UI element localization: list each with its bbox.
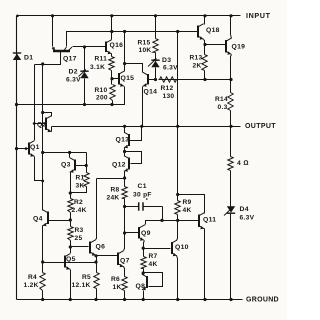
wire Q2 emitter to output rail bbox=[51, 127, 53, 132]
svg-text:Q8: Q8 bbox=[136, 283, 146, 290]
wire Q1 base to left rail bbox=[17, 148, 29, 150]
svg-text:Q11: Q11 bbox=[203, 217, 216, 224]
wire Q11 emitter to ground bbox=[204, 229, 206, 300]
svg-text:R2: R2 bbox=[74, 199, 83, 206]
junction bias line / Q15 collector bbox=[123, 30, 126, 33]
svg-text:Q3: Q3 bbox=[61, 161, 71, 168]
transistor Q19 bbox=[226, 38, 231, 55]
transistor Q6 bbox=[90, 240, 96, 256]
junction input rail x=112 bbox=[110, 14, 113, 17]
wire Q14 collector to Q15 collector bbox=[125, 64, 143, 73]
wire Q6 collector feedback up bbox=[96, 179, 97, 240]
svg-text:R8: R8 bbox=[111, 186, 120, 193]
svg-text:D3: D3 bbox=[162, 57, 171, 64]
resistor R4 1.2K bbox=[40, 273, 45, 291]
svg-text:Q2: Q2 bbox=[37, 122, 47, 129]
wire R1 bottom jog bbox=[71, 187, 87, 193]
svg-text:Q19: Q19 bbox=[232, 44, 246, 51]
wire R10 bottom bbox=[112, 101, 114, 105]
junction bias vertical / Q3 line bbox=[41, 151, 44, 154]
wire Q5 collector bbox=[70, 247, 72, 254]
resistor R9 4K bbox=[175, 201, 180, 215]
junction Q9 emitter / R7 / Q10 base bbox=[142, 247, 145, 250]
wire long vertical upper bbox=[177, 32, 179, 127]
transistor Q3 bbox=[70, 158, 75, 173]
junction Q10 collector / R9 / base line bbox=[176, 219, 179, 222]
wire to R5 bbox=[96, 263, 98, 273]
junction bias line / Q16 collector bbox=[110, 30, 113, 33]
wire output to 4-ohm resistor bbox=[230, 127, 232, 157]
svg-text:Q14: Q14 bbox=[144, 89, 158, 96]
resistor R13 2K bbox=[202, 55, 207, 71]
svg-text:R4: R4 bbox=[28, 274, 37, 281]
transistor Q11 bbox=[199, 213, 204, 230]
svg-text:Q16: Q16 bbox=[110, 42, 124, 49]
svg-text:D1: D1 bbox=[24, 55, 33, 62]
junction R9 top / Q11 collector line bbox=[176, 193, 179, 196]
wire Q12 base-collector loop bbox=[125, 152, 142, 164]
wire Q18 emitter bbox=[204, 40, 205, 45]
wire Q3 collector bbox=[69, 153, 71, 158]
wire output rail bbox=[52, 126, 241, 128]
wire to R8 bbox=[124, 179, 126, 187]
junction input rail / Q18 collector bbox=[203, 14, 206, 17]
junction Q6 emitter / Q7 base line bbox=[94, 254, 97, 257]
wire R6 to ground bbox=[124, 291, 126, 300]
transistor Q15 bbox=[119, 71, 124, 87]
junction R8 / Q7 collector / Q9 base bbox=[123, 231, 126, 234]
transistor Q16 bbox=[106, 40, 112, 55]
svg-text:Q9: Q9 bbox=[141, 230, 151, 237]
junction left rail / return line bbox=[15, 103, 18, 106]
svg-text:R3: R3 bbox=[75, 227, 84, 234]
junction R1 / R2 / Q3 emitter bbox=[69, 191, 72, 194]
wire ground rail (bottom) bbox=[17, 299, 243, 301]
zener arrow D4 bbox=[224, 208, 233, 216]
resistor R10 200 bbox=[110, 85, 115, 101]
wire Q9 base bbox=[125, 232, 139, 234]
svg-text:12.1K: 12.1K bbox=[72, 282, 91, 289]
junction input rail / Q17 emitter bbox=[51, 14, 54, 17]
svg-text:Q13: Q13 bbox=[116, 137, 130, 144]
wire R15 to D3 bbox=[155, 53, 157, 61]
transistor Q17 bbox=[52, 47, 72, 51]
svg-text:D2: D2 bbox=[69, 69, 78, 76]
wire Q11 collector line bbox=[178, 195, 205, 214]
svg-text:R13: R13 bbox=[190, 54, 203, 61]
svg-text:Q10: Q10 bbox=[175, 244, 189, 251]
wire R15 to input rail bbox=[155, 16, 157, 39]
svg-text:Q17: Q17 bbox=[63, 56, 77, 63]
svg-text:GROUND: GROUND bbox=[246, 297, 279, 304]
svg-text:6.3V: 6.3V bbox=[240, 215, 255, 222]
svg-text:Q12: Q12 bbox=[112, 162, 126, 169]
resistor R15 10K bbox=[153, 39, 158, 53]
transistor Q5 bbox=[65, 254, 70, 270]
wire Q7 emitter to R6 bbox=[124, 267, 125, 277]
wire Q15 base bbox=[113, 78, 119, 80]
junction output rail / Q13 base / Q14 emitter bbox=[140, 125, 143, 128]
resistor R3 25 bbox=[68, 227, 73, 241]
junction output rail / Q13 collector bbox=[123, 125, 126, 128]
svg-text:30 pF: 30 pF bbox=[133, 191, 152, 198]
transistor Q14 bbox=[143, 72, 148, 87]
junction input rail / R15 bbox=[154, 14, 157, 17]
junction OUTPUT node bbox=[229, 125, 232, 128]
wire bias vertical lower bbox=[42, 153, 44, 181]
wire D2 cathode down bbox=[84, 79, 86, 105]
resistor R14 0.3 bbox=[228, 93, 233, 111]
wire Q17 collector1 to Q18 base (bias line) bbox=[67, 32, 199, 47]
svg-text:0.3: 0.3 bbox=[218, 104, 228, 111]
wire Q8 base-collector loop bbox=[144, 273, 163, 287]
wire Q16 emitter to R11 bbox=[111, 54, 113, 57]
junction ground rail / Q5 emitter bbox=[69, 298, 72, 301]
wire to R4 bbox=[42, 263, 44, 273]
wire Q1 emitter jog bbox=[35, 157, 43, 181]
corner dot top-left bbox=[16, 15, 19, 18]
wire left rail bbox=[16, 16, 18, 300]
svg-text:Q1: Q1 bbox=[30, 144, 40, 151]
wire Q13 base to output rail bbox=[130, 127, 142, 141]
zener D3 6.3V bbox=[151, 60, 159, 67]
svg-text:2.4K: 2.4K bbox=[72, 207, 87, 214]
wire Q4 emitter down bbox=[42, 226, 44, 263]
svg-text:Q4: Q4 bbox=[33, 215, 43, 222]
transistor Q1 bbox=[29, 141, 34, 157]
zener arrow D2 bbox=[79, 70, 87, 77]
resistor R11 3.1K bbox=[109, 57, 114, 71]
wire Q9 emitter down bbox=[144, 241, 145, 249]
svg-text:Q15: Q15 bbox=[121, 75, 135, 82]
junction ground rail / Q8 bbox=[142, 298, 145, 301]
svg-text:R1: R1 bbox=[76, 174, 85, 181]
wire Q7 base line bbox=[97, 255, 118, 257]
junction Q1 emitter / bias vertical bbox=[41, 180, 44, 183]
wire Q15 emitter to left rail (R10 return) bbox=[17, 87, 125, 105]
wire Q16 collector to input rail bbox=[111, 16, 113, 40]
junction ground rail / Q11 bbox=[203, 298, 206, 301]
svg-text:R9: R9 bbox=[183, 199, 192, 206]
svg-text:4K: 4K bbox=[149, 261, 158, 268]
wire Q3 collector line bbox=[43, 152, 87, 154]
junction ground rail / right leg bbox=[229, 298, 232, 301]
junction Q3 base / R1 chain bbox=[85, 164, 88, 167]
junction Q13 emitter / Q12 collector / Q12 base loop bbox=[123, 150, 126, 153]
svg-text:INPUT: INPUT bbox=[246, 11, 271, 20]
wire D3 to R12 line bbox=[155, 68, 157, 80]
wire R11 to R10 bbox=[111, 71, 113, 85]
svg-text:3.1K: 3.1K bbox=[90, 64, 105, 71]
diode D1 bbox=[13, 53, 21, 60]
transistor Q12 bbox=[124, 156, 129, 172]
junction feedback / Q12 emitter / R8 bbox=[123, 176, 126, 179]
svg-text:130: 130 bbox=[163, 93, 175, 100]
svg-text:10K: 10K bbox=[139, 47, 152, 54]
resistor 4 ohm bbox=[228, 157, 233, 171]
junction D3 / Q14 base / R12 bbox=[154, 78, 157, 81]
svg-text:4K: 4K bbox=[183, 207, 192, 214]
wire Q3 base to R1 node bbox=[76, 165, 87, 167]
wire Q9 collector / Q11 base line bbox=[145, 221, 199, 226]
svg-text:R12: R12 bbox=[161, 85, 174, 92]
junction R11/R10/Q15 base bbox=[110, 77, 113, 80]
junction bias line / long vertical bbox=[176, 30, 179, 33]
resistor R7 4K bbox=[141, 257, 146, 269]
junction C1 / Q11 base line bbox=[160, 219, 163, 222]
junction R10 / return line bbox=[110, 103, 113, 106]
svg-text:6.3V: 6.3V bbox=[66, 76, 81, 83]
svg-text:D4: D4 bbox=[240, 206, 249, 213]
wire Q5 emitter to ground bbox=[70, 270, 72, 300]
wire R7 bottom bbox=[143, 269, 145, 273]
wire R4 to ground bbox=[42, 291, 44, 300]
svg-text:1.2K: 1.2K bbox=[24, 282, 39, 289]
transistor Q10 bbox=[172, 240, 177, 256]
junction R3 / Q5 collector / Q6 base line bbox=[69, 245, 72, 248]
svg-text:R10: R10 bbox=[95, 87, 108, 94]
wire Q14 emitter to output rail bbox=[142, 87, 144, 127]
wire R5 to ground bbox=[96, 289, 98, 300]
wire 4-ohm to D4 bbox=[230, 171, 232, 207]
junction Q3 collector bbox=[68, 151, 71, 154]
wire Q2 base to Q1 collector line bbox=[35, 123, 46, 125]
wire bias vertical upper bbox=[42, 65, 44, 113]
junction input rail / right rail bbox=[229, 14, 232, 17]
junction ground rail / R6 bbox=[123, 298, 126, 301]
zener D4 6.3V bbox=[227, 206, 235, 213]
resistor R5 12.1K bbox=[94, 273, 99, 289]
junction bias vertical / Q2 collector line bbox=[41, 111, 44, 114]
wire bias vertical mid bbox=[42, 113, 44, 153]
wire R12 line to right rail bbox=[159, 79, 231, 81]
wire R2 to R3 bbox=[70, 213, 72, 227]
wire to R13 bbox=[204, 45, 206, 55]
wire Q1 collector vertical bbox=[34, 65, 36, 141]
wire Q7 collector up bbox=[124, 233, 125, 251]
junction Q4 base / divider bbox=[69, 218, 72, 221]
svg-text:Q18: Q18 bbox=[206, 27, 220, 34]
wire Q6 base line bbox=[71, 246, 89, 248]
junction Q4 emitter / R4 / Q5 base line bbox=[41, 260, 44, 263]
junction left rail / Q1 base bbox=[15, 147, 18, 150]
wire R9 bottom bbox=[177, 215, 179, 221]
svg-text:R7: R7 bbox=[149, 253, 158, 260]
wire to R7 bbox=[143, 249, 145, 257]
wire to R9 bbox=[177, 195, 179, 201]
svg-text:6.3V: 6.3V bbox=[163, 64, 178, 71]
junction Q16 base / D2 / Q17 collector2 bbox=[83, 45, 86, 48]
wire R3 bottom bbox=[70, 241, 72, 247]
junction R13 bottom / R12 line bbox=[203, 78, 206, 81]
svg-text:Q6: Q6 bbox=[96, 244, 106, 251]
wire Q15 collector up to bias line bbox=[124, 32, 126, 72]
junction R12 line / right rail bbox=[229, 78, 232, 81]
transistor Q18 bbox=[198, 24, 204, 40]
transistor Q2 bbox=[46, 116, 52, 133]
wire Q10 collector up bbox=[177, 221, 178, 241]
junction ground rail / R4 bbox=[41, 298, 44, 301]
zener D2 6.3V bbox=[80, 71, 88, 78]
svg-text:R5: R5 bbox=[82, 274, 91, 281]
wire D4 to ground rail bbox=[230, 214, 232, 300]
junction R5 / base lines bbox=[94, 260, 97, 263]
junction Q18 emitter / Q19 base / R13 bbox=[203, 43, 206, 46]
wire Q19 collector to input rail bbox=[231, 16, 232, 39]
wire Q5 base line bbox=[43, 262, 65, 264]
wire Q19 emitter down to R14 bbox=[231, 55, 232, 93]
wire Q10 base line bbox=[144, 248, 171, 250]
wire Q6 emitter down bbox=[96, 256, 97, 263]
resistor R6 1K bbox=[122, 277, 127, 291]
junction output rail / long vertical bbox=[176, 125, 179, 128]
wire Q18 collector to input rail bbox=[204, 16, 206, 25]
wire C1 right lead down bbox=[162, 207, 164, 221]
wire jog Q1 collector to Q17 base node bbox=[35, 64, 43, 66]
wire Q12 emitter down bbox=[124, 172, 126, 179]
resistor R8 24K bbox=[122, 187, 127, 199]
wire D2 anode bbox=[84, 47, 86, 72]
svg-text:3K: 3K bbox=[76, 182, 85, 189]
junction C1 left lead bbox=[123, 205, 126, 208]
wire Q17 collector2 to D2 node bbox=[73, 46, 85, 48]
wire Q10 emitter to ground bbox=[177, 256, 178, 300]
zener arrow D3 bbox=[148, 59, 157, 67]
wire to R2 bbox=[70, 193, 72, 199]
transistor Q7 bbox=[118, 251, 124, 268]
wire R14 to output node bbox=[230, 111, 232, 127]
svg-text:200: 200 bbox=[96, 94, 108, 101]
junction ground rail / Q10 bbox=[176, 298, 179, 301]
svg-text:R6: R6 bbox=[111, 276, 120, 283]
junction ground rail / R5 bbox=[94, 298, 97, 301]
svg-text:OUTPUT: OUTPUT bbox=[245, 123, 276, 130]
junction Q17 base node bbox=[41, 62, 44, 65]
svg-text:25: 25 bbox=[75, 235, 83, 242]
wire Q18 emitter to Q19 base bbox=[205, 44, 226, 46]
resistor R2 2.4K bbox=[68, 199, 73, 213]
svg-text:Q5: Q5 bbox=[66, 256, 76, 263]
svg-text:C1: C1 bbox=[138, 183, 147, 190]
wire to Q4 collector bbox=[42, 181, 44, 211]
svg-text:R15: R15 bbox=[138, 39, 151, 46]
junction Q1 collector / Q2 base bbox=[33, 122, 36, 125]
svg-text:4 Ω: 4 Ω bbox=[237, 160, 249, 167]
wire Q17 emitter to input rail bbox=[52, 16, 54, 47]
svg-text:R11: R11 bbox=[95, 55, 108, 62]
svg-text:2K: 2K bbox=[193, 62, 202, 69]
junction D2 / return line bbox=[83, 103, 86, 106]
wire Q4 base to divider bbox=[49, 220, 71, 222]
wire Q5 base line to R5 node bbox=[66, 262, 97, 264]
wire R13 bottom bbox=[204, 71, 206, 80]
wire Q8 emitter to ground bbox=[143, 291, 145, 300]
svg-text:Q7: Q7 bbox=[120, 257, 130, 264]
junction dot Q1 base bbox=[25, 147, 28, 150]
wire down to R1 bbox=[86, 153, 88, 173]
wire Q14 base bbox=[149, 79, 156, 81]
transistor Q8 bbox=[142, 274, 147, 290]
resistor R1 3K bbox=[84, 173, 89, 187]
wire long vertical mid bbox=[177, 127, 179, 195]
wire Q2 collector line bbox=[43, 113, 52, 117]
svg-text:R14: R14 bbox=[215, 96, 228, 103]
wire input rail (top) bbox=[17, 15, 241, 17]
junction Q15 collector / Q14 collector bbox=[123, 62, 126, 65]
transistor Q4 bbox=[43, 210, 49, 227]
transistor Q9 bbox=[139, 225, 144, 241]
resistor R12 130 bbox=[160, 77, 177, 82]
wire Q13 emitter to Q12 collector bbox=[124, 148, 126, 156]
wire Q13 collector to output rail bbox=[124, 127, 126, 133]
wire R8 bottom down bbox=[124, 199, 126, 233]
wire Q16 base line bbox=[85, 46, 106, 48]
svg-text:1K: 1K bbox=[113, 284, 122, 291]
svg-text:24K: 24K bbox=[107, 194, 120, 201]
capacitor C1 30pF bbox=[125, 202, 163, 210]
wire Q3 emitter down bbox=[70, 173, 72, 193]
junction R7 / Q8 collector-base loop bbox=[142, 271, 145, 274]
wire feedback to Q12 emitter node bbox=[97, 178, 125, 180]
wire Q17 base down-left bbox=[43, 52, 61, 65]
transistor Q13 bbox=[124, 132, 129, 148]
